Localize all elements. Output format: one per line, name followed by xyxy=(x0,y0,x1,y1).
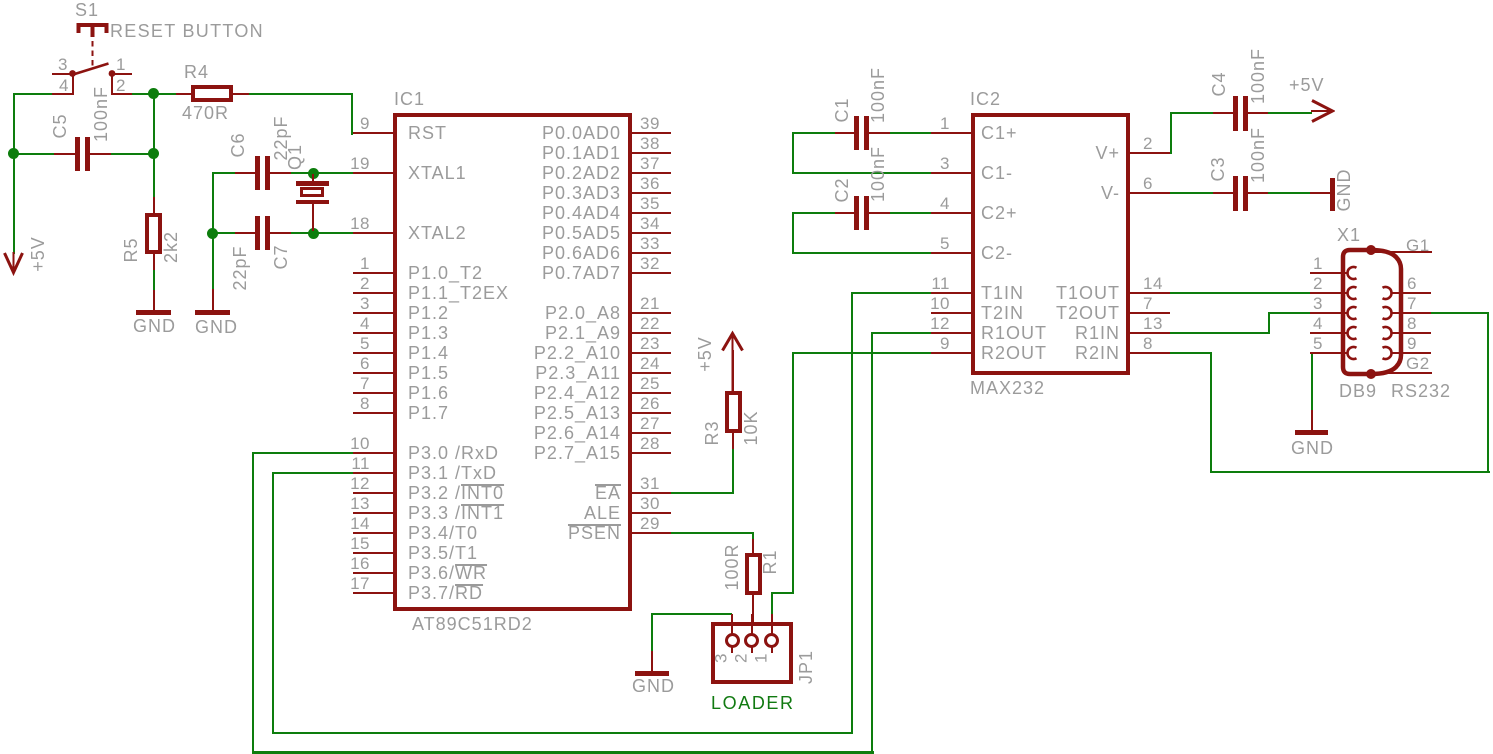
pin label P1.7 of IC1 xyxy=(408,404,449,422)
wire +5V rail to S1 pin 4 xyxy=(13,93,53,95)
wire C5 row left xyxy=(13,153,56,155)
pin G2 of X1 xyxy=(1373,372,1432,374)
pin 2 lower stub of JP1 xyxy=(751,647,753,653)
pin 13 of IC1 xyxy=(353,512,393,514)
label +5V left xyxy=(29,236,47,272)
label C3 name xyxy=(1209,156,1227,181)
pin number 4 of X1 xyxy=(1283,315,1323,332)
pin 8 of IC1 xyxy=(353,412,393,414)
label C6 value 22pF xyxy=(272,115,290,160)
pin 9 of IC2 xyxy=(931,352,971,354)
ground bar below R5 xyxy=(136,310,171,315)
pin 28 of IC1 xyxy=(631,452,671,454)
pin 2 of X1 xyxy=(1310,292,1348,294)
pin 34 of IC1 xyxy=(631,232,671,234)
capacitor C5 left stub xyxy=(54,153,75,155)
pin label P1.2 of IC1 xyxy=(408,304,449,322)
label R4 value 470R xyxy=(182,104,229,122)
wire V+ to C4 xyxy=(1170,112,1214,114)
pin label XTAL2 of IC1 xyxy=(408,224,467,242)
pin 36 of IC1 xyxy=(631,192,671,194)
label X1 DB9 xyxy=(1339,382,1377,400)
pin 5 of IC1 xyxy=(353,352,393,354)
wire R2IN vertical down xyxy=(1210,352,1212,473)
pin number 31 of IC1 xyxy=(640,475,660,492)
pin label P1.0_T2 of IC1 xyxy=(408,264,483,282)
wire C2 loop to MAX232 pin 5 xyxy=(792,252,932,254)
pin label C1- of IC2 xyxy=(981,164,1013,182)
switch S1 right bar xyxy=(111,73,113,95)
pin 4 of IC1 xyxy=(353,332,393,334)
wire C1 left xyxy=(792,132,836,134)
pin 30 of IC1 xyxy=(631,512,671,514)
label R1 name xyxy=(761,549,779,574)
wire node A to R4 xyxy=(153,93,177,95)
label RESET BUTTON xyxy=(110,22,264,40)
resistor R1 top stub xyxy=(752,539,754,554)
node C7 left junction xyxy=(207,228,218,239)
switch S1 actuator and contacts xyxy=(0,0,200,120)
pin number 24 of IC1 xyxy=(640,355,660,372)
pin number 14 of IC2 xyxy=(1143,275,1163,292)
label C6 name xyxy=(229,132,247,157)
wire T1IN vertical long xyxy=(851,292,853,733)
pin number 12 of IC1 xyxy=(330,475,370,492)
resistor R3 body xyxy=(725,391,742,433)
pin 14 of IC1 xyxy=(353,532,393,534)
pin label P2.1_A9 of IC1 xyxy=(461,324,621,342)
pin label V+ of IC2 xyxy=(1000,144,1120,162)
label R3 value 10K xyxy=(742,410,760,445)
pin number 23 of IC1 xyxy=(640,335,660,352)
ground bar below X1 xyxy=(1295,430,1328,435)
pin 6 of IC2 xyxy=(1130,192,1170,194)
pin 11 of IC2 xyxy=(931,292,971,294)
pin number 19 of IC1 xyxy=(330,155,370,172)
pin number 9 of X1 xyxy=(1407,335,1417,352)
capacitor C5 left plate xyxy=(75,137,80,171)
pin 25 of IC1 xyxy=(631,392,671,394)
pin label C2+ of IC2 xyxy=(981,204,1018,222)
label IC2 value MAX232 xyxy=(970,379,1045,397)
ground pin at JP1 xyxy=(651,651,653,672)
pin label P3.7/RD of IC1 xyxy=(408,584,483,602)
pin number 1 of S1 xyxy=(116,56,126,73)
wire C7 right to XTAL2 pin 18 xyxy=(289,232,354,234)
pin label C1+ of IC2 xyxy=(981,124,1018,142)
switch S1 pin 3 stub xyxy=(52,73,73,75)
wire R1OUT to MAX232 pin 12 xyxy=(871,332,931,334)
pin 24 of IC1 xyxy=(631,372,671,374)
capacitor C1 right plate xyxy=(864,116,869,150)
pin 3 circle of JP1 xyxy=(725,633,740,648)
pin 10 of IC1 xyxy=(353,452,393,454)
pin number 2 of JP1 xyxy=(732,653,749,663)
pin number 3 of IC1 xyxy=(330,295,370,312)
label S1 name xyxy=(75,1,99,19)
label IC1 name xyxy=(394,90,425,108)
wire loader GND vertical xyxy=(651,613,653,653)
capacitor C7 left plate xyxy=(255,216,260,250)
pin 37 of IC1 xyxy=(631,172,671,174)
label C7 name xyxy=(272,244,290,269)
pin 5 of X1 xyxy=(1310,352,1348,354)
wire jog to DB9 pin 3 xyxy=(1268,312,1312,314)
pin label P2.0_A8 of IC1 xyxy=(461,304,621,322)
wire EA pin 31 to R3 xyxy=(671,492,734,494)
pin 39 of IC1 xyxy=(631,132,671,134)
pin number 25 of IC1 xyxy=(640,375,660,392)
pin number 13 of IC2 xyxy=(1143,315,1163,332)
IC U1 AT89C51RD2 body IC1 xyxy=(393,113,632,611)
wire R2IN horizontal xyxy=(1170,352,1212,354)
pin number 1 of IC2 xyxy=(910,115,950,132)
pin label P1.5 of IC1 xyxy=(408,364,449,382)
ground pin right of C3 xyxy=(1310,192,1330,194)
pin 7 of IC1 xyxy=(353,392,393,394)
wire right loop vertical xyxy=(1487,312,1489,473)
pin number 26 of IC1 xyxy=(640,395,660,412)
label R5 value 2k2 xyxy=(162,231,180,263)
label X1 RS232 xyxy=(1391,382,1451,400)
pin label P0.3AD3 of IC1 xyxy=(461,184,621,202)
pin 7 of X1 xyxy=(1391,312,1431,314)
label JP1 value LOADER xyxy=(711,694,795,712)
pin number 3 of IC2 xyxy=(910,155,950,172)
pin number 5 of IC1 xyxy=(330,335,370,352)
wire vertical down to RST pin 9 xyxy=(351,93,353,135)
resistor R4 left stub xyxy=(176,93,191,95)
pin label PSEN of IC1 xyxy=(461,524,621,542)
label C5 value 100nF xyxy=(92,86,110,142)
ground bar at JP1 xyxy=(635,671,669,676)
label R4 name xyxy=(184,63,209,81)
pin label G2 of X1 xyxy=(1406,355,1430,372)
wire R3 bottom vertical xyxy=(732,448,734,494)
pin 3 stub of JP1 xyxy=(731,614,733,635)
wire R1 top vertical xyxy=(752,532,754,541)
capacitor C2 right plate xyxy=(864,196,869,230)
label C2 name xyxy=(833,177,851,202)
pin label T2OUT of IC2 xyxy=(1000,304,1120,322)
pin number 14 of IC1 xyxy=(330,515,370,532)
label GND below R5 xyxy=(133,317,176,335)
pin label R2IN of IC2 xyxy=(1000,344,1120,362)
pin number 6 of X1 xyxy=(1407,275,1417,292)
pin label R1OUT of IC2 xyxy=(981,324,1047,342)
pin label P3.3 /INT1 of IC1 xyxy=(408,504,504,522)
pin label P3.1 /TxD of IC1 xyxy=(408,464,497,482)
label R1 value 100R xyxy=(723,543,741,590)
pin number 2 of X1 xyxy=(1283,275,1323,292)
pin 31 of IC1 xyxy=(631,492,671,494)
pin 1 of IC1 xyxy=(353,272,393,274)
resistor R5 body xyxy=(145,213,162,254)
node C5 right junction xyxy=(148,148,159,159)
capacitor C5 right stub xyxy=(90,153,111,155)
pin number 27 of IC1 xyxy=(640,415,660,432)
capacitor C1 left stub xyxy=(835,132,856,134)
pin number 38 of IC1 xyxy=(640,135,660,152)
pin label P3.2 /INT0 of IC1 xyxy=(408,484,504,502)
pin 32 of IC1 xyxy=(631,272,671,274)
pin 4 of X1 xyxy=(1310,332,1348,334)
pin 1 of IC2 xyxy=(931,132,971,134)
pin 2 stub of JP1 xyxy=(751,614,753,635)
pin number 34 of IC1 xyxy=(640,215,660,232)
IC IC2 MAX232 body xyxy=(971,113,1130,375)
wire +5V rail vertical xyxy=(13,93,15,254)
node C5 left junction xyxy=(8,148,19,159)
pin number 16 of IC1 xyxy=(330,555,370,572)
pin number 6 of IC1 xyxy=(330,355,370,372)
pin number 2 of IC1 xyxy=(330,275,370,292)
pin label R2OUT of IC2 xyxy=(981,344,1047,362)
pin number 8 of IC2 xyxy=(1143,335,1153,352)
label C2 value 100nF xyxy=(869,145,887,201)
wire R5 bottom to GND xyxy=(153,269,155,291)
pin 1 stub of JP1 xyxy=(771,614,773,635)
pin 12 of IC1 xyxy=(353,492,393,494)
capacitor C7 right stub xyxy=(270,232,291,234)
pin 1 of X1 xyxy=(1310,272,1348,274)
crystal Q1 body xyxy=(300,187,324,197)
capacitor C5 right plate xyxy=(85,137,90,171)
wire right loop to DB9 pin 7 xyxy=(1431,312,1489,314)
crystal Q1 bottom pin xyxy=(312,204,314,231)
resistor R4 body xyxy=(191,85,233,102)
pin 3 of X1 xyxy=(1310,312,1348,314)
crystal Q1 bottom plate xyxy=(296,200,329,205)
pin number 37 of IC1 xyxy=(640,155,660,172)
pin number 7 of IC2 xyxy=(1143,295,1153,312)
node XTAL2 junction xyxy=(308,228,319,239)
label C3 value 100nF xyxy=(1249,126,1267,182)
pin 15 of IC1 xyxy=(353,552,393,554)
wire R1IN horizontal xyxy=(1170,332,1270,334)
pin 19 of IC1 xyxy=(353,172,393,174)
pin number 5 of X1 xyxy=(1283,335,1323,352)
pin number 1 of X1 xyxy=(1283,255,1323,272)
label IC1 value AT89C51RD2 xyxy=(412,615,533,633)
pin number 3 of JP1 xyxy=(713,653,730,663)
pin number 7 of IC1 xyxy=(330,375,370,392)
pin 2 of IC2 xyxy=(1130,152,1170,154)
pin number 30 of IC1 xyxy=(640,495,660,512)
pin number 8 of IC1 xyxy=(330,395,370,412)
pin label V- of IC2 xyxy=(1000,184,1120,202)
pin label P1.4 of IC1 xyxy=(408,344,449,362)
pin label P0.6AD6 of IC1 xyxy=(461,244,621,262)
capacitor C6 left plate xyxy=(255,156,260,190)
pin label XTAL1 of IC1 xyxy=(408,164,467,182)
pin number 35 of IC1 xyxy=(640,195,660,212)
pin 6 of IC1 xyxy=(353,372,393,374)
label C4 value 100nF xyxy=(1249,47,1267,103)
pin label P3.4/T0 of IC1 xyxy=(408,524,478,542)
pin 26 of IC1 xyxy=(631,412,671,414)
wire to C6 left xyxy=(212,172,236,174)
capacitor C1 left plate xyxy=(854,116,859,150)
pin label P2.4_A12 of IC1 xyxy=(461,384,621,402)
capacitor C2 right stub xyxy=(869,212,890,214)
wire to C7 left xyxy=(212,232,236,234)
pin number 13 of IC1 xyxy=(330,495,370,512)
label C1 value 100nF xyxy=(869,66,887,122)
capacitor C6 right plate xyxy=(265,156,270,190)
resistor R3 bottom stub xyxy=(732,433,734,449)
wire C1 loop to MAX232 pin 3 xyxy=(792,172,932,174)
crystal Q1 top pin xyxy=(312,174,314,183)
wire T1IN to MAX232 pin 11 xyxy=(851,292,931,294)
pin label C2- of IC2 xyxy=(981,244,1013,262)
wire loader pin 3 to GND horizontal xyxy=(651,613,732,615)
wire R1IN jog vertical xyxy=(1268,312,1270,334)
pin number 29 of IC1 xyxy=(640,515,660,532)
pin 3 of IC1 xyxy=(353,312,393,314)
pin 5 of IC2 xyxy=(931,252,971,254)
pin 9 of IC1 xyxy=(353,132,393,134)
ground bar right of C3 (rotated) xyxy=(1330,178,1335,211)
pin number 8 of X1 xyxy=(1407,315,1417,332)
pin number 4 of IC1 xyxy=(330,315,370,332)
pin 3 of IC2 xyxy=(931,172,971,174)
pin number 5 of IC2 xyxy=(910,235,950,252)
pin label P0.7AD7 of IC1 xyxy=(461,264,621,282)
ground pin below X1 xyxy=(1311,410,1313,431)
crystal Q1 top plate xyxy=(296,181,329,186)
wire R2OUT to MAX232 pin 9 xyxy=(792,352,931,354)
switch S1 pin 1 stub xyxy=(111,73,132,75)
wire R4 to IC1 RST corner xyxy=(249,93,353,95)
label +5V right xyxy=(1289,76,1325,94)
pin 29 of IC1 xyxy=(631,532,671,534)
pin 18 of IC1 xyxy=(353,232,393,234)
wire node A down through C5 node to R5 xyxy=(153,93,155,198)
label Q1 name xyxy=(286,144,304,170)
wire C2 loop vertical xyxy=(792,212,794,254)
label R5 name xyxy=(122,237,140,262)
label X1 name xyxy=(1337,226,1361,244)
capacitor C3 left stub xyxy=(1213,192,1233,194)
pin number 2 of IC2 xyxy=(1143,135,1153,152)
pin label P2.5_A13 of IC1 xyxy=(461,404,621,422)
ground pin below C7 xyxy=(212,289,214,310)
pin 11 of IC1 xyxy=(353,472,393,474)
pin 33 of IC1 xyxy=(631,252,671,254)
pin G1 of X1 xyxy=(1373,251,1432,253)
wire PSEN pin 29 to R1 column xyxy=(671,532,754,534)
resistor R5 top stub xyxy=(153,197,155,214)
pin number 22 of IC1 xyxy=(640,315,660,332)
wire R2IN bottom run xyxy=(1210,471,1490,473)
pin number 33 of IC1 xyxy=(640,235,660,252)
pin 10 of IC2 xyxy=(931,312,971,314)
label C5 name xyxy=(51,113,69,138)
pin number 36 of IC1 xyxy=(640,175,660,192)
pin label P1.3 of IC1 xyxy=(408,324,449,342)
wire C5 row right xyxy=(109,153,155,155)
label GND right of C3 xyxy=(1335,168,1353,211)
capacitor C4 left stub xyxy=(1213,112,1233,114)
pin label T1IN of IC2 xyxy=(981,284,1024,302)
capacitor C3 left plate xyxy=(1233,176,1238,211)
pin number 1 of JP1 xyxy=(752,653,769,663)
resistor R4 right stub xyxy=(233,93,249,95)
label C7 value 22pF xyxy=(231,245,249,290)
pin label P2.2_A10 of IC1 xyxy=(461,344,621,362)
ground bar below C7 xyxy=(195,310,230,315)
wire C3 to GND xyxy=(1267,192,1311,194)
pin 1 circle of JP1 xyxy=(764,633,779,648)
wire C1 right to MAX232 pin 1 xyxy=(888,132,931,134)
pin label P0.5AD5 of IC1 xyxy=(461,224,621,242)
pin label ALE of IC1 xyxy=(461,504,621,522)
capacitor C7 right plate xyxy=(265,216,270,250)
pin label P3.5/T1 of IC1 xyxy=(408,544,478,562)
capacitor C4 left plate xyxy=(1233,96,1238,131)
wire T1OUT to DB9 pin 2 xyxy=(1170,292,1311,294)
pin number 9 of IC1 xyxy=(330,115,370,132)
pin number 10 of IC2 xyxy=(910,295,950,312)
label C4 name xyxy=(1210,71,1228,96)
ground pin below R5 xyxy=(153,290,155,311)
wire V- pin 6 to C3 xyxy=(1170,192,1214,194)
pin label P2.7_A15 of IC1 xyxy=(461,444,621,462)
pin number 18 of IC1 xyxy=(330,215,370,232)
label JP1 name xyxy=(797,649,815,683)
resistor R5 bottom stub xyxy=(153,254,155,270)
pin 27 of IC1 xyxy=(631,432,671,434)
pin number 21 of IC1 xyxy=(640,295,660,312)
pin label P3.6/WR of IC1 xyxy=(408,564,487,582)
capacitor C3 right plate xyxy=(1243,176,1248,211)
connector X1 contact arcs xyxy=(1290,225,1470,405)
pin label P0.0AD0 of IC1 xyxy=(461,124,621,142)
wire loader pin 1 horizontal xyxy=(771,592,794,594)
pin 38 of IC1 xyxy=(631,152,671,154)
wire C2 right to MAX232 pin 4 xyxy=(888,212,931,214)
+5V supply arrow (down) top-left xyxy=(0,245,40,285)
pin number 9 of IC2 xyxy=(910,335,950,352)
pin label EA of IC1 xyxy=(461,484,621,502)
pin number 6 of IC2 xyxy=(1143,175,1153,192)
resistor R1 body xyxy=(745,553,762,595)
capacitor C3 right stub xyxy=(1248,192,1268,194)
pin 14 of IC2 xyxy=(1130,292,1170,294)
pin number 4 of IC2 xyxy=(910,195,950,212)
resistor R3 top stub xyxy=(732,350,734,392)
wire P3.0 RxD vertical long xyxy=(252,452,254,753)
+5V supply arrow (up) at R3 xyxy=(712,330,752,400)
pin number 3 of S1 xyxy=(28,56,68,73)
pin label R1IN of IC2 xyxy=(1000,324,1120,342)
wire P3.1 TxD horizontal xyxy=(272,472,354,474)
label GND below C7 xyxy=(195,318,238,336)
wire V+ pin 2 vertical xyxy=(1170,112,1172,154)
wire P3.0 RxD horizontal xyxy=(252,452,354,454)
wire C1 loop vertical xyxy=(792,132,794,174)
capacitor C6 left stub xyxy=(235,172,256,174)
switch S1 left bar xyxy=(72,73,74,95)
pin 2 circle of JP1 xyxy=(744,633,759,648)
pin number 32 of IC1 xyxy=(640,255,660,272)
pin 21 of IC1 xyxy=(631,312,671,314)
wire xtal C6 left vertical xyxy=(212,172,214,290)
pin 8 of IC2 xyxy=(1130,352,1170,354)
pin 8 of X1 xyxy=(1391,332,1431,334)
wire loader pin 1 vertical xyxy=(771,592,773,615)
